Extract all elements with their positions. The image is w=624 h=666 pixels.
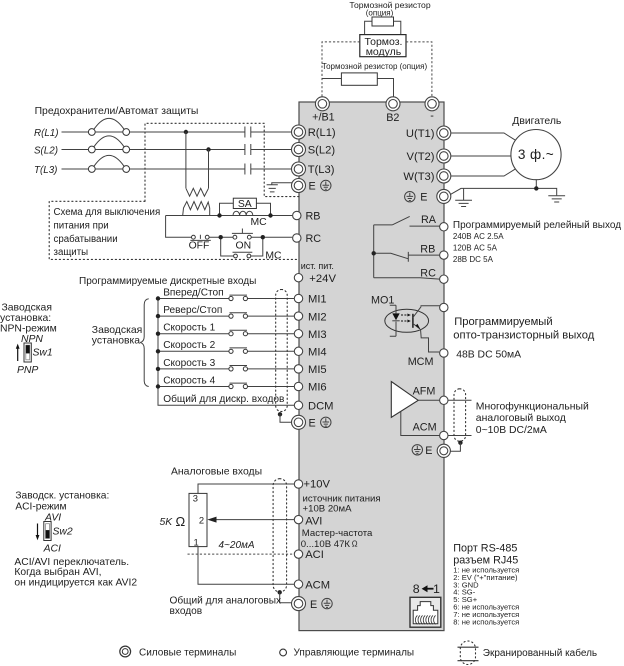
svg-text:Мастер-частота: Мастер-частота xyxy=(302,528,373,539)
svg-text:Скорость 4: Скорость 4 xyxy=(163,375,215,386)
svg-text:Скорость 1: Скорость 1 xyxy=(163,323,215,334)
svg-text:S(L2): S(L2) xyxy=(34,146,58,157)
svg-text:Тормозной резистор (опция): Тормозной резистор (опция) xyxy=(322,62,428,71)
svg-text:E: E xyxy=(425,445,432,457)
svg-text:Управляющие терминалы: Управляющие терминалы xyxy=(294,648,415,659)
svg-text:Силовые терминалы: Силовые терминалы xyxy=(139,647,236,658)
svg-text:MI1: MI1 xyxy=(308,294,327,306)
svg-text:1: 1 xyxy=(433,582,440,596)
svg-text:W(T3): W(T3) xyxy=(403,171,434,183)
svg-text:Предохранители/Автомат защиты: Предохранители/Автомат защиты xyxy=(35,106,199,117)
svg-text:+/B1: +/B1 xyxy=(312,112,335,124)
svg-text:SA: SA xyxy=(238,199,252,210)
svg-text:установка:: установка: xyxy=(0,313,51,324)
svg-text:PNP: PNP xyxy=(17,365,38,376)
svg-text:Двигатель: Двигатель xyxy=(512,116,561,127)
svg-text:E: E xyxy=(309,418,316,430)
svg-text:Общий для аналоговых: Общий для аналоговых xyxy=(170,594,282,606)
svg-text:аналоговый выход: аналоговый выход xyxy=(476,413,566,424)
svg-text:Схема для выключения: Схема для выключения xyxy=(54,207,161,218)
svg-text:Реверс/Стоп: Реверс/Стоп xyxy=(163,305,222,316)
svg-text:питания при: питания при xyxy=(54,221,109,232)
svg-text:5K: 5K xyxy=(160,517,174,528)
svg-text:NPN-режим: NPN-режим xyxy=(0,324,57,335)
svg-text:Ω: Ω xyxy=(352,539,358,548)
svg-text:Когда выбран AVI,: Когда выбран AVI, xyxy=(14,566,101,578)
svg-text:AFM: AFM xyxy=(413,385,436,397)
svg-text:3: 3 xyxy=(193,492,198,503)
svg-text:Вперед/Стоп: Вперед/Стоп xyxy=(163,287,223,298)
svg-text:Экранированный кабель: Экранированный кабель xyxy=(483,647,597,659)
svg-text:RC: RC xyxy=(306,233,322,245)
svg-text:OFF: OFF xyxy=(189,240,210,251)
svg-text:ACI-режим: ACI-режим xyxy=(15,502,66,513)
svg-text:Программируемый релейный выход: Программируемый релейный выход xyxy=(453,220,621,231)
svg-text:Скорость 3: Скорость 3 xyxy=(163,358,215,369)
svg-text:120В AC 5A: 120В AC 5A xyxy=(453,244,498,253)
svg-text:он индицируется как AVI2: он индицируется как AVI2 xyxy=(14,578,137,589)
svg-text:MI2: MI2 xyxy=(308,311,327,323)
svg-text:ACI/AVI переключатель.: ACI/AVI переключатель. xyxy=(14,557,129,568)
svg-text:1: 1 xyxy=(194,537,199,548)
svg-text:AVI: AVI xyxy=(305,516,322,528)
svg-text:MI4: MI4 xyxy=(308,347,327,359)
svg-text:входов: входов xyxy=(170,606,203,617)
svg-text:4~20мА: 4~20мА xyxy=(219,540,255,551)
svg-text:240В AC 2.5A: 240В AC 2.5A xyxy=(453,232,504,241)
svg-text:E: E xyxy=(420,192,427,204)
svg-text:+24V: +24V xyxy=(309,273,336,285)
svg-text:RB: RB xyxy=(420,243,435,255)
svg-text:RA: RA xyxy=(421,214,437,226)
svg-text:3 ф.~: 3 ф.~ xyxy=(518,147,554,162)
svg-text:ист. пит.: ист. пит. xyxy=(301,261,334,271)
svg-text:+10В 20мА: +10В 20мА xyxy=(303,503,353,514)
svg-text:28В DC 5A: 28В DC 5A xyxy=(453,255,494,264)
svg-text:ACM: ACM xyxy=(413,421,437,433)
svg-text:R(L1): R(L1) xyxy=(308,127,336,139)
svg-text:R(L1): R(L1) xyxy=(34,128,59,139)
svg-text:U(T1): U(T1) xyxy=(406,128,435,140)
svg-text:Порт RS-485: Порт RS-485 xyxy=(453,542,517,554)
svg-text:ACI: ACI xyxy=(305,549,324,561)
svg-text:Ω: Ω xyxy=(176,514,186,529)
svg-text:MC: MC xyxy=(265,251,282,262)
svg-text:установка: установка xyxy=(92,336,141,347)
svg-text:Аналоговые входы: Аналоговые входы xyxy=(171,466,262,477)
svg-text:Программируемые дискретные вхо: Программируемые дискретные входы xyxy=(79,276,256,287)
svg-text:V(T2): V(T2) xyxy=(407,151,435,163)
svg-text:B2: B2 xyxy=(386,112,399,124)
svg-text:T(L3): T(L3) xyxy=(308,164,335,176)
svg-text:RC: RC xyxy=(420,267,436,279)
svg-text:Программируемый: Программируемый xyxy=(454,316,552,328)
svg-text:Заводская: Заводская xyxy=(92,325,142,336)
svg-text:защиты: защиты xyxy=(54,247,89,258)
svg-text:DCM: DCM xyxy=(308,401,333,413)
svg-text:Sw2: Sw2 xyxy=(53,527,73,538)
svg-text:модуль: модуль xyxy=(366,46,402,58)
svg-text:Многофункциональный: Многофункциональный xyxy=(476,400,589,412)
svg-text:T(L3): T(L3) xyxy=(34,165,57,176)
svg-text:ACI: ACI xyxy=(43,544,61,555)
svg-text:MI5: MI5 xyxy=(308,364,327,376)
svg-text:0~10В DC/2мА: 0~10В DC/2мА xyxy=(476,425,547,436)
svg-text:-: - xyxy=(430,110,434,122)
svg-text:(опция): (опция) xyxy=(366,8,394,17)
svg-text:MI6: MI6 xyxy=(308,382,327,394)
svg-text:ACM: ACM xyxy=(305,579,330,591)
svg-text:Скорость 2: Скорость 2 xyxy=(163,340,215,351)
svg-text:8: не используется: 8: не используется xyxy=(453,617,519,626)
svg-text:MI3: MI3 xyxy=(308,329,327,341)
svg-text:опто-транзисторный выход: опто-транзисторный выход xyxy=(453,330,594,342)
svg-text:E: E xyxy=(309,181,316,193)
svg-text:+10V: +10V xyxy=(304,479,331,491)
svg-text:Sw1: Sw1 xyxy=(33,347,53,358)
svg-text:срабатывании: срабатывании xyxy=(54,234,118,245)
svg-text:Заводск. установка:: Заводск. установка: xyxy=(15,491,109,502)
svg-text:RB: RB xyxy=(306,211,321,223)
svg-text:48В DC 50мА: 48В DC 50мА xyxy=(456,350,521,361)
svg-text:ON: ON xyxy=(236,240,252,251)
svg-text:Заводская: Заводская xyxy=(2,303,52,314)
svg-text:E: E xyxy=(310,599,317,611)
svg-text:MC: MC xyxy=(251,217,268,228)
svg-text:MCM: MCM xyxy=(408,356,434,368)
svg-text:Общий для дискр. входов: Общий для дискр. входов xyxy=(163,393,284,405)
svg-text:2: 2 xyxy=(199,514,204,525)
svg-text:S(L2): S(L2) xyxy=(308,145,336,157)
svg-text:8: 8 xyxy=(413,582,420,596)
